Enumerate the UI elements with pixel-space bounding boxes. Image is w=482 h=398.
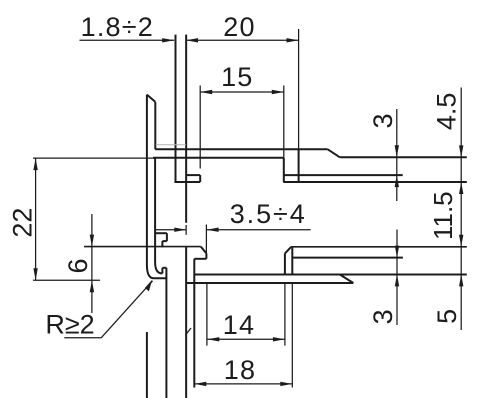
arrow 3 top up tip bbox=[395, 175, 399, 187]
dimension 22 line bbox=[35, 158, 37, 280]
lower panel right bevel bbox=[340, 275, 354, 284]
dimension 20 line bbox=[186, 39, 299, 41]
lower channel right wall inner face bbox=[284, 253, 286, 274]
break mark on lower fin bbox=[186, 328, 192, 335]
long reference line left (6 top / tab top) bbox=[84, 246, 201, 248]
dimension 14 line bbox=[207, 338, 285, 340]
upper channel lip right edge bbox=[199, 175, 201, 182]
arrow 3 bottom down tip bbox=[395, 246, 399, 258]
svg-text:3: 3 bbox=[368, 113, 398, 128]
lower hook inner radius bbox=[155, 262, 162, 273]
lower channel right wall chamfer bbox=[285, 247, 291, 254]
arrow 5 up tip bbox=[459, 274, 463, 286]
left wall top chamfer bbox=[147, 95, 155, 102]
svg-text:22: 22 bbox=[7, 208, 37, 238]
arrow 20 right tip bbox=[287, 38, 299, 42]
arrow 22 bottom tip bbox=[33, 268, 37, 280]
lower channel left wall right edge bbox=[193, 259, 195, 388]
svg-text:1.8÷2: 1.8÷2 bbox=[81, 12, 154, 42]
upper hook inner edge bbox=[161, 241, 163, 247]
dimension 3.5÷4 line right part bbox=[207, 229, 311, 231]
extension line 20 right bbox=[298, 29, 300, 149]
right dimension column line bbox=[460, 88, 462, 331]
arrow 4.5 down tip bbox=[459, 145, 463, 157]
upper channel lip bottom bbox=[174, 181, 200, 183]
arrow 6 top tip bbox=[90, 235, 94, 247]
lower hook lip outer edge going down bbox=[165, 268, 167, 398]
upper hook top bbox=[155, 232, 167, 234]
dimension 3 bottom line bbox=[396, 230, 398, 326]
svg-text:R≥2: R≥2 bbox=[45, 310, 94, 340]
svg-text:11.5: 11.5 bbox=[428, 191, 458, 240]
upper channel right wall outer face bbox=[298, 149, 300, 182]
leader R>=2 diagonal bbox=[101, 281, 152, 338]
lower profile fin left edge bbox=[185, 246, 187, 398]
arrow 1.8÷2 right tip bbox=[162, 38, 174, 42]
faint seam line bbox=[156, 144, 186, 146]
arrow 22 top tip bbox=[33, 158, 37, 170]
arrow 3 top down tip bbox=[395, 145, 399, 157]
left wall inner edge below panel bbox=[154, 158, 156, 262]
lower channel left wall chamfer bbox=[201, 247, 207, 254]
lower hook lip top bbox=[162, 267, 166, 269]
arrow 11.5 down tip bbox=[459, 235, 463, 247]
left wall inner edge upper bbox=[154, 102, 156, 149]
lower panel bottom surface bbox=[186, 282, 353, 284]
arrow 15 left tip bbox=[200, 90, 212, 94]
lower panel top surface bbox=[194, 274, 467, 276]
arrow 11.5 up tip bbox=[459, 182, 463, 194]
svg-text:20: 20 bbox=[223, 12, 255, 42]
lower channel left wall inner face upper bbox=[205, 253, 207, 258]
svg-text:15: 15 bbox=[221, 62, 253, 92]
upper hook step bottom bbox=[162, 240, 167, 242]
dimension 1.8÷2 line bbox=[80, 39, 175, 41]
extension line 18 right below panel bbox=[291, 283, 293, 388]
arrow leader R>=2 tip bbox=[145, 280, 152, 292]
extension tick 3.5÷4 left bbox=[185, 225, 187, 235]
extension line 15 right bbox=[283, 86, 285, 158]
lower channel left wall step bbox=[194, 258, 206, 260]
arrow 20 left tip bbox=[186, 38, 198, 42]
flange mid line bbox=[283, 174, 402, 176]
lower channel right wall outer face bbox=[291, 247, 293, 275]
svg-text:4.5: 4.5 bbox=[431, 93, 461, 131]
extension line 15 left bbox=[199, 86, 201, 169]
extension tick 3.5÷4 right bbox=[205, 225, 207, 254]
arrow 18 right tip bbox=[280, 382, 292, 386]
arrow 3 bottom up tip bbox=[395, 274, 399, 286]
lower right top surface bbox=[291, 246, 467, 248]
upper hook right edge bbox=[166, 233, 168, 241]
extension line 22 top bbox=[33, 157, 154, 159]
arrow 15 right tip bbox=[272, 90, 284, 94]
panel bottom surface bbox=[153, 157, 284, 159]
lower hook outer radius R>=2 bbox=[147, 265, 167, 279]
svg-text:3.5÷4: 3.5÷4 bbox=[230, 199, 307, 229]
top thin wall (fin) right edge bbox=[185, 35, 187, 223]
arrow 3.5÷4 right tip bbox=[207, 228, 219, 232]
svg-text:3: 3 bbox=[368, 309, 398, 324]
upper channel lip top bbox=[186, 174, 200, 176]
panel top chamfer step bbox=[328, 149, 340, 157]
arrow 14 left tip bbox=[207, 337, 219, 341]
left wall outer edge bottom stub bbox=[146, 332, 148, 398]
panel right top surface bbox=[340, 156, 467, 158]
dimension 18 line bbox=[194, 383, 292, 385]
dimension 15 line bbox=[200, 91, 284, 93]
dimension 3.5÷4 line left part bbox=[156, 229, 187, 231]
svg-text:6: 6 bbox=[63, 258, 93, 273]
extension line 14 left below panel bbox=[206, 283, 208, 346]
lower hook lip inner edge bbox=[161, 268, 163, 274]
arrow 6 bottom tip bbox=[90, 280, 94, 292]
extension line 22 bottom / 6 bottom bbox=[33, 279, 100, 281]
arrow 3.5÷4 left tip bbox=[174, 228, 186, 232]
arrow 18 left tip bbox=[194, 382, 206, 386]
left wall outer edge upper bbox=[146, 95, 148, 265]
leader R>=2 underline bbox=[64, 337, 101, 339]
extension line 14 right below panel bbox=[284, 283, 286, 346]
upper channel right wall inner face bbox=[283, 158, 285, 182]
dimension 3 top line bbox=[396, 109, 398, 201]
flange bottom line bbox=[283, 181, 467, 183]
svg-text:14: 14 bbox=[223, 310, 255, 340]
arrow 14 right tip bbox=[273, 337, 285, 341]
panel top surface bbox=[155, 148, 328, 150]
svg-text:5: 5 bbox=[432, 309, 462, 324]
top thin wall (fin) left edge bbox=[175, 35, 177, 182]
svg-text:18: 18 bbox=[224, 355, 256, 385]
dimension 6 line bbox=[91, 214, 93, 313]
lower right mid line bbox=[292, 257, 403, 259]
